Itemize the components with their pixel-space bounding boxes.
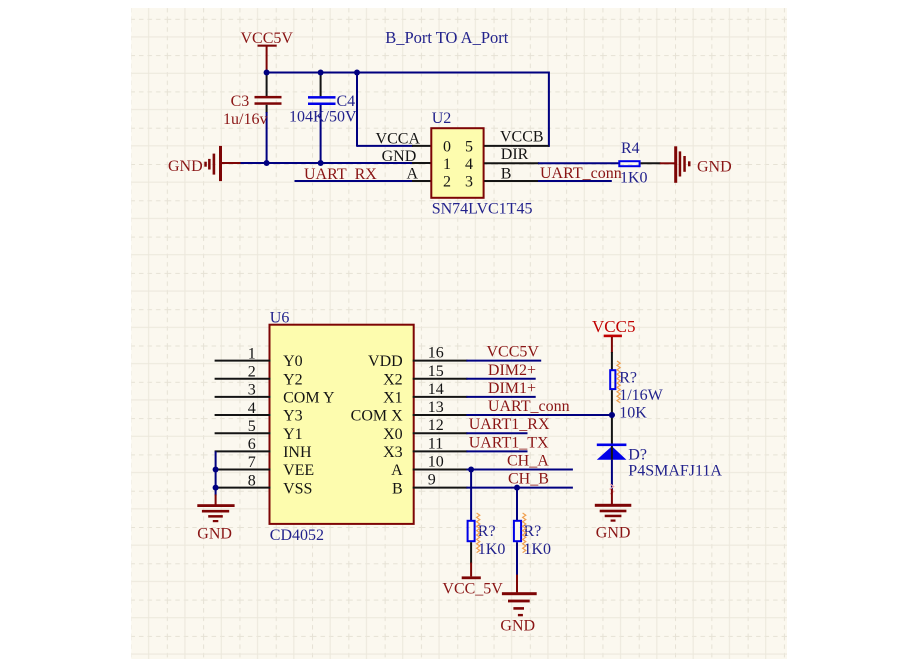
- svg-text:C3: C3: [231, 93, 250, 110]
- svg-text:1K0: 1K0: [620, 170, 648, 187]
- svg-text:1K0: 1K0: [478, 541, 506, 558]
- svg-text:DIR: DIR: [501, 146, 529, 163]
- svg-text:P4SMAFJ11A: P4SMAFJ11A: [628, 463, 722, 480]
- svg-text:2: 2: [248, 363, 256, 380]
- svg-text:Y0: Y0: [283, 353, 303, 370]
- svg-text:15: 15: [428, 363, 444, 380]
- svg-text:VCC5V: VCC5V: [487, 344, 540, 361]
- svg-text:3: 3: [248, 382, 256, 399]
- svg-text:VEE: VEE: [283, 462, 314, 479]
- svg-text:12: 12: [428, 417, 444, 434]
- svg-text:14: 14: [428, 381, 444, 398]
- svg-text:10K: 10K: [619, 405, 647, 422]
- svg-text:Y3: Y3: [283, 408, 303, 425]
- svg-text:CH_A: CH_A: [507, 453, 549, 470]
- svg-text:6: 6: [248, 436, 256, 453]
- svg-text:3: 3: [465, 174, 473, 191]
- svg-text:1: 1: [248, 345, 256, 362]
- svg-text:UART_conn: UART_conn: [488, 398, 570, 415]
- svg-text:GND: GND: [500, 618, 535, 635]
- svg-text:B: B: [392, 480, 403, 497]
- svg-text:16: 16: [428, 345, 444, 362]
- svg-text:VCCB: VCCB: [500, 129, 544, 146]
- svg-text:1/16W: 1/16W: [619, 387, 663, 404]
- svg-text:8: 8: [248, 472, 256, 489]
- svg-text:VCC_5V: VCC_5V: [442, 581, 503, 598]
- svg-text:DIM1+: DIM1+: [488, 380, 536, 397]
- svg-text:UART_conn: UART_conn: [540, 165, 622, 182]
- svg-text:UART1_RX: UART1_RX: [469, 416, 550, 433]
- svg-text:VCC5: VCC5: [592, 317, 635, 336]
- svg-text:UART1_TX: UART1_TX: [469, 434, 549, 451]
- svg-text:VSS: VSS: [283, 480, 312, 497]
- svg-text:GND: GND: [697, 159, 732, 176]
- svg-text:COM Y: COM Y: [283, 390, 335, 407]
- svg-text:A: A: [391, 462, 403, 479]
- svg-text:1u/16v: 1u/16v: [223, 111, 267, 128]
- svg-text:CH_B: CH_B: [508, 471, 549, 488]
- svg-text:Y2: Y2: [283, 371, 303, 388]
- svg-text:GND: GND: [382, 148, 417, 165]
- svg-text:4: 4: [465, 156, 473, 173]
- svg-text:U6: U6: [270, 309, 290, 326]
- svg-text:2: 2: [443, 174, 451, 191]
- svg-text:1: 1: [443, 156, 451, 173]
- svg-text:R4: R4: [621, 140, 640, 157]
- svg-text:1K0: 1K0: [524, 541, 552, 558]
- svg-text:GND: GND: [596, 525, 631, 542]
- svg-text:CD4052: CD4052: [270, 527, 324, 544]
- svg-text:4: 4: [248, 400, 256, 417]
- svg-text:7: 7: [248, 454, 256, 471]
- svg-text:VDD: VDD: [368, 353, 403, 370]
- svg-text:X1: X1: [383, 390, 403, 407]
- svg-text:13: 13: [428, 399, 444, 416]
- svg-text:11: 11: [428, 435, 443, 452]
- svg-text:B_Port TO A_Port: B_Port TO A_Port: [385, 28, 509, 47]
- svg-text:X0: X0: [383, 426, 403, 443]
- svg-text:DIM2+: DIM2+: [488, 362, 536, 379]
- svg-text:5: 5: [248, 418, 256, 435]
- svg-text:A: A: [406, 165, 418, 182]
- svg-text:X2: X2: [383, 371, 403, 388]
- svg-text:0: 0: [443, 138, 451, 155]
- svg-text:COM X: COM X: [351, 408, 403, 425]
- svg-text:5: 5: [465, 138, 473, 155]
- svg-text:R?: R?: [619, 369, 637, 386]
- svg-text:U2: U2: [432, 110, 452, 127]
- svg-text:D?: D?: [628, 446, 647, 463]
- svg-text:104K/50V: 104K/50V: [289, 109, 357, 126]
- svg-text:B: B: [501, 165, 512, 182]
- svg-text:9: 9: [428, 472, 436, 489]
- svg-text:Y1: Y1: [283, 426, 303, 443]
- svg-text:10: 10: [428, 454, 444, 471]
- svg-text:GND: GND: [197, 526, 232, 543]
- svg-text:INH: INH: [283, 444, 312, 461]
- svg-text:SN74LVC1T45: SN74LVC1T45: [432, 201, 533, 218]
- svg-text:X3: X3: [383, 444, 403, 461]
- svg-text:GND: GND: [168, 158, 203, 175]
- svg-text:VCCA: VCCA: [376, 130, 421, 147]
